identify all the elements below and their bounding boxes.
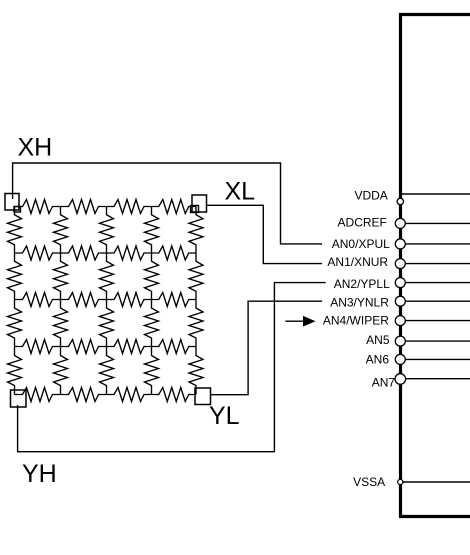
svg-text:AN3/YNLR: AN3/YNLR xyxy=(330,295,389,309)
resistor RV42 (column 4, vertical) xyxy=(145,253,159,300)
terminal XL (upper-right contact square) xyxy=(192,195,207,212)
resistor RH12 (row 1, horizontal) xyxy=(61,200,107,214)
op-amp/ADC IC U1 outline (left edge, partial) xyxy=(401,15,470,517)
label YL xyxy=(209,402,240,430)
resistor RV32 (column 3, vertical) xyxy=(100,253,114,300)
svg-text:XH: XH xyxy=(18,133,53,161)
resistor RH41 (row 4, horizontal) xyxy=(15,340,61,354)
svg-text:ADCREF: ADCREF xyxy=(338,215,387,229)
resistor RV43 (column 4, vertical) xyxy=(145,300,159,347)
resistor RV34 (column 3, vertical) xyxy=(100,347,114,395)
pin AN6 xyxy=(366,353,470,367)
resistor RH14 (row 1, horizontal) xyxy=(152,200,197,214)
resistor RV54 (column 5, vertical) xyxy=(189,347,203,395)
wire YL to AN3/YNLR xyxy=(211,301,323,395)
svg-text:AN7: AN7 xyxy=(372,375,396,389)
svg-text:AN2/YPLL: AN2/YPLL xyxy=(334,277,390,291)
resistor RH52 (row 5, horizontal) xyxy=(61,388,107,402)
resistor RH21 (row 2, horizontal) xyxy=(15,246,61,260)
node XH (small contact node square) xyxy=(14,207,21,213)
resistor RH11 (row 1, horizontal) xyxy=(15,200,61,214)
resistor RV44 (column 4, vertical) xyxy=(145,347,159,395)
pin AN3/YNLR xyxy=(330,295,470,309)
wire XH to AN0/XPUL xyxy=(13,163,323,244)
svg-text:AN1/XNUR: AN1/XNUR xyxy=(327,255,388,269)
resistor RH23 (row 2, horizontal) xyxy=(107,246,152,260)
resistor RV24 (column 2, vertical) xyxy=(54,347,68,395)
pin AN7 xyxy=(372,374,470,390)
svg-text:VSSA: VSSA xyxy=(353,475,385,489)
resistor RV12 (column 1, vertical) xyxy=(8,253,22,300)
svg-text:AN4/WIPER: AN4/WIPER xyxy=(323,314,389,328)
resistor RV11 (column 1, vertical) xyxy=(8,207,22,254)
node XL (small contact node square) xyxy=(191,206,199,213)
pin VDDA xyxy=(354,188,470,204)
terminal YH (lower-left contact square) xyxy=(11,390,27,407)
svg-text:AN5: AN5 xyxy=(366,333,390,347)
wire YH to AN2/YPLL xyxy=(18,283,326,452)
resistor RV22 (column 2, vertical) xyxy=(54,253,68,300)
resistor RV14 (column 1, vertical) xyxy=(8,347,22,395)
arrow into pin AN4/WIPER xyxy=(285,316,315,327)
label XH xyxy=(18,133,53,161)
resistor RH42 (row 4, horizontal) xyxy=(61,340,107,354)
svg-text:AN0/XPUL: AN0/XPUL xyxy=(332,237,390,251)
pin AN0/XPUL xyxy=(332,237,470,251)
resistor RV52 (column 5, vertical) xyxy=(189,253,203,300)
resistor RH43 (row 4, horizontal) xyxy=(107,340,152,354)
svg-text:AN6: AN6 xyxy=(366,353,390,367)
resistor RH33 (row 3, horizontal) xyxy=(107,293,152,307)
resistor RH32 (row 3, horizontal) xyxy=(61,293,107,307)
pin VSSA xyxy=(353,475,470,489)
wire XL to AN1/XNUR xyxy=(207,205,323,263)
svg-text:YL: YL xyxy=(209,402,240,430)
svg-text:XL: XL xyxy=(225,178,256,206)
resistor RH22 (row 2, horizontal) xyxy=(61,246,107,260)
resistor RH53 (row 5, horizontal) xyxy=(107,388,152,402)
resistor RV33 (column 3, vertical) xyxy=(100,300,114,347)
resistor RV41 (column 4, vertical) xyxy=(145,207,159,254)
pin ADCREF xyxy=(338,215,470,229)
terminal XH (upper-left contact square) xyxy=(5,194,19,211)
resistor RH54 (row 5, horizontal) xyxy=(152,388,197,402)
svg-text:VDDA: VDDA xyxy=(354,188,387,202)
label YH xyxy=(22,460,57,488)
label XL xyxy=(225,178,256,206)
resistor RV13 (column 1, vertical) xyxy=(8,300,22,347)
pin AN5 xyxy=(366,333,470,347)
resistor RH34 (row 3, horizontal) xyxy=(152,293,197,307)
resistor RV21 (column 2, vertical) xyxy=(54,207,68,254)
resistor RV23 (column 2, vertical) xyxy=(54,300,68,347)
resistor RH24 (row 2, horizontal) xyxy=(152,246,197,260)
pin AN4/WIPER xyxy=(323,314,470,328)
resistor RH13 (row 1, horizontal) xyxy=(107,200,152,214)
pin AN2/YPLL xyxy=(334,277,470,291)
svg-text:YH: YH xyxy=(22,460,57,488)
resistor RH51 (row 5, horizontal) xyxy=(15,388,61,402)
terminal YL (lower-right contact square) xyxy=(195,388,211,405)
resistor RV51 (column 5, vertical) xyxy=(189,207,203,254)
resistor RV53 (column 5, vertical) xyxy=(189,300,203,347)
resistor RV31 (column 3, vertical) xyxy=(100,207,114,254)
resistor RH31 (row 3, horizontal) xyxy=(15,293,61,307)
pin AN1/XNUR xyxy=(327,255,470,269)
resistor RH44 (row 4, horizontal) xyxy=(152,340,197,354)
